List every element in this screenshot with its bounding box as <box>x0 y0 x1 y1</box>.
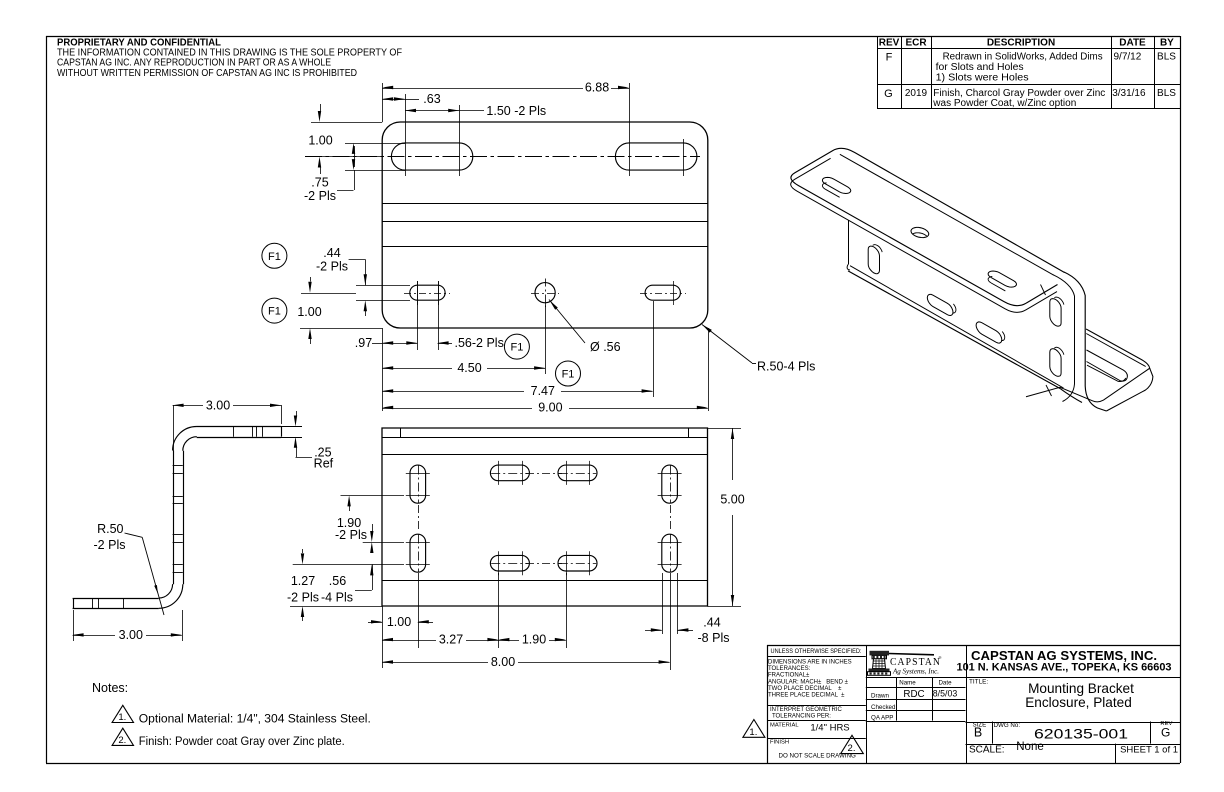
svg-text:BLS: BLS <box>1157 88 1176 99</box>
svg-text:.44: .44 <box>323 246 340 260</box>
svg-text:Optional Material: 1/4", 304 S: Optional Material: 1/4", 304 Stainless S… <box>139 711 371 725</box>
svg-text:1.: 1. <box>749 727 757 738</box>
svg-text:F1: F1 <box>268 306 281 318</box>
svg-text:.56: .56 <box>329 574 346 588</box>
svg-text:.75: .75 <box>311 176 328 190</box>
svg-text:Enclosure, Plated: Enclosure, Plated <box>1025 695 1132 710</box>
svg-text:Notes:: Notes: <box>92 681 128 695</box>
svg-text:SCALE:: SCALE: <box>969 745 1005 756</box>
svg-text:was Powder Coat, w/Zinc option: was Powder Coat, w/Zinc option <box>932 98 1076 109</box>
svg-text:8.00: 8.00 <box>491 655 515 669</box>
svg-text:UNLESS OTHERWISE SPECIFIED:: UNLESS OTHERWISE SPECIFIED: <box>771 648 862 655</box>
svg-text:R.50-4 Pls: R.50-4 Pls <box>757 360 815 374</box>
svg-text:2019: 2019 <box>905 88 928 99</box>
svg-text:1.00: 1.00 <box>297 305 321 319</box>
svg-text:Drawn: Drawn <box>871 692 889 699</box>
svg-text:R.50: R.50 <box>97 522 123 536</box>
svg-text:BY: BY <box>1160 37 1174 48</box>
svg-text:WITHOUT WRITTEN PERMISSION OF: WITHOUT WRITTEN PERMISSION OF CAPSTAN AG… <box>57 67 357 79</box>
svg-text:-2 Pls: -2 Pls <box>335 528 367 542</box>
svg-text:TWO PLACE DECIMAL ±: TWO PLACE DECIMAL ± <box>768 686 842 692</box>
svg-text:None: None <box>1016 741 1044 753</box>
svg-text:2.: 2. <box>848 743 856 754</box>
svg-text:-8 Pls: -8 Pls <box>698 631 730 645</box>
svg-text:3.00: 3.00 <box>119 628 143 642</box>
svg-text:ANGULAR: MACH± BEND ±: ANGULAR: MACH± BEND ± <box>768 679 849 685</box>
svg-text:.44: .44 <box>703 616 720 630</box>
svg-text:3/31/16: 3/31/16 <box>1112 88 1146 99</box>
svg-text:1.50 -2 Pls: 1.50 -2 Pls <box>486 104 546 118</box>
svg-text:1.90: 1.90 <box>522 633 546 647</box>
svg-text:®: ® <box>938 655 942 660</box>
svg-text:G: G <box>1161 725 1170 739</box>
svg-text:3.27: 3.27 <box>439 633 463 647</box>
svg-text:TITLE:: TITLE: <box>969 678 988 685</box>
svg-text:Mounting Bracket: Mounting Bracket <box>1028 681 1134 696</box>
svg-text:-2 Pls: -2 Pls <box>316 260 348 274</box>
svg-text:-2 Pls: -2 Pls <box>304 189 336 203</box>
svg-text:TOLERANCING PER:: TOLERANCING PER: <box>772 714 831 720</box>
svg-text:BLS: BLS <box>1157 51 1176 62</box>
svg-text:1.: 1. <box>118 712 126 723</box>
svg-text:DIMENSIONS ARE IN INCHES: DIMENSIONS ARE IN INCHES <box>768 660 852 666</box>
svg-text:Name: Name <box>899 679 916 686</box>
svg-text:F1: F1 <box>562 369 575 381</box>
svg-text:8/5/03: 8/5/03 <box>933 689 958 699</box>
svg-text:.97: .97 <box>355 336 372 350</box>
svg-text:TOLERANCES:: TOLERANCES: <box>768 666 811 672</box>
svg-text:REV: REV <box>879 37 900 48</box>
svg-text:THREE PLACE DECIMAL ±: THREE PLACE DECIMAL ± <box>768 692 845 698</box>
svg-text:Ag Systems, Inc.: Ag Systems, Inc. <box>892 668 939 676</box>
svg-text:9.00: 9.00 <box>538 401 562 415</box>
svg-text:FRACTIONAL±: FRACTIONAL± <box>768 672 810 678</box>
svg-text:RDC: RDC <box>903 689 924 700</box>
svg-text:1.27: 1.27 <box>291 574 315 588</box>
svg-text:F1: F1 <box>510 342 523 354</box>
svg-text:FINISH: FINISH <box>770 740 789 746</box>
svg-text:620135-001: 620135-001 <box>1034 727 1128 742</box>
svg-text:MATERIAL: MATERIAL <box>770 723 799 729</box>
svg-text:INTERPRET GEOMETRIC: INTERPRET GEOMETRIC <box>770 707 843 713</box>
svg-text:QA APP: QA APP <box>871 715 893 722</box>
svg-text:DATE: DATE <box>1119 37 1146 48</box>
svg-text:9/7/12: 9/7/12 <box>1114 51 1142 62</box>
svg-text:CAPSTAN: CAPSTAN <box>890 657 941 668</box>
svg-text:Finish: Powder coat Gray over: Finish: Powder coat Gray over Zinc plate… <box>139 734 345 748</box>
svg-text:-2 Pls: -2 Pls <box>287 591 319 605</box>
svg-text:1) Slots were Holes: 1) Slots were Holes <box>936 72 1029 83</box>
svg-text:SHEET 1 of 1: SHEET 1 of 1 <box>1120 745 1178 756</box>
svg-text:Redrawn in SolidWorks, Added D: Redrawn in SolidWorks, Added Dims <box>943 51 1103 62</box>
svg-text:6.88: 6.88 <box>585 81 609 95</box>
svg-text:101 N. KANSAS AVE., TOPEKA, KS: 101 N. KANSAS AVE., TOPEKA, KS 66603 <box>957 661 1172 673</box>
svg-text:Ref: Ref <box>314 456 334 470</box>
svg-text:1.00: 1.00 <box>308 134 332 148</box>
svg-text:4.50: 4.50 <box>457 361 481 375</box>
svg-text:for Slots and Holes: for Slots and Holes <box>936 62 1024 73</box>
svg-text:Checked: Checked <box>871 704 896 711</box>
svg-text:.56-2 Pls: .56-2 Pls <box>455 336 504 350</box>
svg-text:F1: F1 <box>268 251 281 263</box>
svg-text:1.00: 1.00 <box>387 615 411 629</box>
svg-text:3.00: 3.00 <box>206 398 230 412</box>
svg-text:B: B <box>974 726 982 740</box>
svg-text:1/4" HRS: 1/4" HRS <box>810 722 849 733</box>
svg-text:G: G <box>884 88 893 100</box>
svg-text:Ø .56: Ø .56 <box>590 340 621 354</box>
svg-text:5.00: 5.00 <box>720 493 744 507</box>
svg-text:ECR: ECR <box>905 37 927 48</box>
svg-text:-2 Pls: -2 Pls <box>94 538 126 552</box>
svg-text:Finish, Charcol Gray Powder ov: Finish, Charcol Gray Powder over Zinc <box>933 88 1105 99</box>
svg-text:-4 Pls: -4 Pls <box>321 591 353 605</box>
svg-text:Date: Date <box>938 679 952 686</box>
svg-text:2.: 2. <box>118 735 126 746</box>
svg-text:DESCRIPTION: DESCRIPTION <box>987 37 1055 48</box>
svg-text:.63: .63 <box>423 92 440 106</box>
svg-text:7.47: 7.47 <box>531 384 555 398</box>
svg-text:F: F <box>886 52 893 64</box>
svg-text:DWG No:: DWG No: <box>994 722 1021 729</box>
